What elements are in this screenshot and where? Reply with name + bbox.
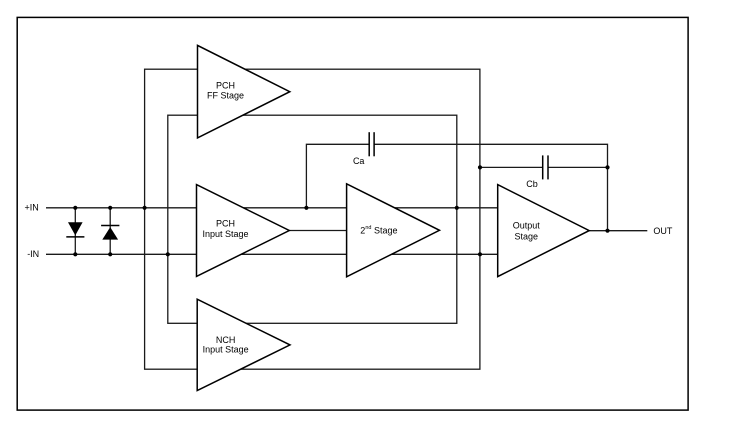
svg-text:FF Stage: FF Stage	[207, 90, 244, 100]
svg-text:Cb: Cb	[526, 179, 538, 189]
svg-text:PCH: PCH	[216, 81, 235, 91]
svg-text:Input Stage: Input Stage	[202, 229, 248, 239]
svg-text:+IN: +IN	[25, 202, 39, 212]
svg-text:PCH: PCH	[216, 219, 235, 229]
svg-text:Input Stage: Input Stage	[203, 345, 249, 355]
svg-text:-IN: -IN	[27, 249, 39, 259]
svg-text:Output: Output	[513, 221, 541, 231]
svg-text:Stage: Stage	[515, 231, 539, 241]
svg-text:NCH: NCH	[216, 335, 236, 345]
svg-text:OUT: OUT	[653, 226, 673, 236]
svg-text:Ca: Ca	[353, 156, 365, 166]
